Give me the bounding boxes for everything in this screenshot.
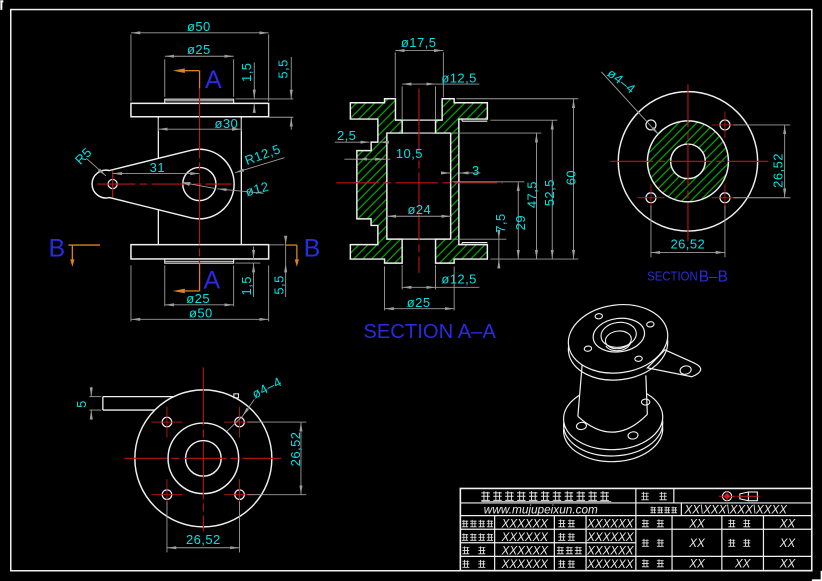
3d lug — [647, 350, 700, 377]
front view tube right wall — [240, 117, 242, 245]
svg-text:B: B — [304, 234, 321, 262]
svg-text:31: 31 — [150, 160, 165, 175]
dimension 29 — [452, 181, 524, 183]
dimension Ø30 — [157, 118, 159, 131]
svg-text:ø25: ø25 — [186, 291, 210, 306]
dimension 31 — [113, 173, 200, 175]
label document number cell — [650, 507, 677, 513]
front view lug small hole — [108, 179, 117, 188]
grip square on flange circle — [234, 394, 239, 398]
svg-text:26,52: 26,52 — [770, 153, 785, 188]
section A-A vertical centerline — [418, 89, 420, 273]
dimension 2,5 — [335, 141, 370, 143]
dimension 5,5 bottom — [269, 244, 284, 246]
svg-text:B: B — [49, 234, 66, 262]
svg-text:B–B: B–B — [699, 268, 728, 285]
svg-text:26,52: 26,52 — [186, 532, 221, 547]
svg-text:ø12,5: ø12,5 — [441, 272, 477, 287]
flange view outer circle — [135, 390, 272, 527]
svg-text:ø50: ø50 — [187, 19, 211, 34]
svg-text:1,5: 1,5 — [239, 63, 254, 82]
screen artifact bottom-right — [821, 571, 822, 581]
svg-text:XXXXXX: XXXXXX — [501, 517, 550, 530]
svg-text:26,52: 26,52 — [670, 237, 705, 252]
row quantity — [462, 560, 469, 568]
svg-text:7,5: 7,5 — [493, 213, 508, 232]
row part number — [462, 520, 493, 527]
front view teardrop lug outline — [92, 149, 234, 219]
section B-B bore circle — [671, 144, 706, 179]
dimension 26,52 vertical flange view — [247, 421, 306, 423]
dimension Ø24 — [387, 215, 451, 217]
section A-A flange underside steps right — [461, 119, 463, 121]
svg-text:3: 3 — [472, 163, 480, 178]
svg-text:XXXXXX: XXXXXX — [586, 558, 635, 571]
3d top boss — [591, 315, 646, 355]
section B-B bolt holes — [646, 120, 656, 130]
flange view lug tab — [103, 396, 174, 398]
svg-text:XX: XX — [688, 517, 706, 530]
svg-text:XX: XX — [779, 557, 797, 570]
svg-text:26,52: 26,52 — [288, 432, 303, 467]
svg-text:XXXXXX: XXXXXX — [501, 558, 550, 571]
svg-text:A: A — [205, 66, 222, 94]
svg-text:XX: XX — [734, 557, 752, 570]
section line B left with arrow — [68, 244, 100, 246]
svg-text:XXXXXX: XXXXXX — [501, 544, 550, 557]
flange view main centerlines — [202, 367, 204, 531]
section A-A left material hatched — [350, 99, 402, 263]
front view top flange — [131, 103, 269, 116]
company name row — [481, 491, 608, 500]
title block horizontal lines — [460, 502, 811, 504]
projection symbol cone — [740, 492, 758, 501]
svg-text:SECTION A–A: SECTION A–A — [363, 321, 496, 343]
dimension 1,5 bottom — [235, 262, 260, 264]
front view bottom flange — [131, 245, 269, 259]
svg-text:SECTION: SECTION — [647, 270, 698, 284]
dimension 52,5 — [490, 119, 557, 121]
3d bottom flange — [562, 384, 663, 451]
3d bottom flange visible holes — [576, 422, 587, 431]
dimension 26,52 horizontal B-B — [650, 205, 652, 257]
svg-text:XX: XX — [779, 537, 797, 550]
dimension 26,52 vertical B-B — [733, 124, 790, 126]
dimension 10,5 — [344, 158, 390, 160]
svg-text:60: 60 — [563, 170, 578, 185]
svg-text:ø25: ø25 — [187, 42, 211, 57]
svg-text:ø12,5: ø12,5 — [441, 71, 477, 86]
dimension 5 tab — [89, 396, 101, 398]
svg-text:52,5: 52,5 — [542, 179, 557, 206]
section B-B main centerlines — [610, 160, 768, 162]
front view small hole centerline — [112, 171, 114, 198]
title block vertical lines — [635, 488, 637, 570]
right block check row — [642, 559, 649, 567]
dimension Ø25 top — [164, 59, 166, 97]
svg-text:5,5: 5,5 — [276, 59, 291, 78]
dimension 26,52 horizontal flange view — [166, 501, 168, 552]
dimension 60 — [456, 98, 578, 100]
dimension Ø25 section — [384, 266, 386, 310]
svg-text:1,5: 1,5 — [239, 276, 254, 295]
dimension Ø17,5 — [394, 52, 396, 97]
section line A bottom with arrow — [199, 263, 201, 291]
section A-A right material hatched — [436, 99, 488, 263]
dimension Ø50 bottom — [130, 265, 132, 321]
section line B right with arrow — [285, 244, 297, 246]
flange view bolt hole centerlines — [151, 421, 182, 423]
flange view bore circle Ø12,5 — [186, 441, 222, 477]
section B-B bolt hole centerlines — [637, 197, 664, 199]
flange view boss circle Ø25 — [168, 423, 239, 494]
extension line bottom right — [490, 258, 578, 260]
3d bore rim — [600, 320, 638, 349]
front view top boss — [165, 99, 234, 103]
svg-text:XX: XX — [779, 517, 797, 530]
3d top flange — [564, 299, 672, 379]
front view vertical centerline — [199, 88, 201, 263]
front view tube left wall — [157, 117, 159, 159]
3d top flange holes — [595, 313, 603, 319]
screen corner artifact top-left — [0, 0, 2, 10]
label view angle cell — [641, 492, 648, 500]
dimension Ø25 bottom — [164, 265, 166, 306]
svg-text:www.mujupeixun.com: www.mujupeixun.com — [484, 502, 598, 516]
front view lug big hole Ø12 — [183, 167, 216, 200]
svg-text:XXXXXX: XXXXXX — [501, 531, 550, 544]
front view lug horizontal centerline — [97, 183, 231, 185]
svg-text:XXXXXX: XXXXXX — [586, 544, 635, 557]
title block outer border — [460, 488, 811, 570]
3d cylinder body — [578, 362, 648, 432]
projection symbol red target — [722, 492, 731, 501]
dimension Ø12,5 top — [401, 86, 403, 120]
section line A top with arrow — [184, 70, 199, 72]
svg-text:47,5: 47,5 — [524, 181, 539, 208]
dimension 3 wall — [441, 172, 451, 174]
section B-B hatched core — [647, 121, 728, 202]
section B-B outer circle Ø50 — [618, 92, 757, 231]
svg-text:2,5: 2,5 — [337, 128, 356, 143]
svg-text:XX: XX — [688, 537, 706, 550]
svg-text:ø17,5: ø17,5 — [401, 35, 437, 50]
dimension Ø50 top — [130, 34, 132, 101]
svg-text:XX: XX — [688, 557, 706, 570]
svg-text:5,5: 5,5 — [272, 275, 287, 294]
flange view bolt holes — [162, 417, 172, 427]
svg-text:XX\XXX\XXX\XXXX: XX\XXX\XXX\XXXX — [684, 504, 789, 517]
svg-text:10,5: 10,5 — [396, 146, 423, 161]
right block draw row merged — [642, 539, 649, 547]
svg-text:ø30: ø30 — [214, 116, 238, 131]
svg-text:ø50: ø50 — [189, 306, 213, 321]
section A-A bore step lines — [402, 119, 435, 121]
row part name — [462, 533, 493, 540]
section A-A horizontal centerline — [336, 182, 503, 184]
svg-text:ø24: ø24 — [407, 202, 431, 217]
svg-text:XXXXXX: XXXXXX — [586, 517, 635, 530]
dimension 7,5 — [452, 238, 506, 240]
dimension 47,5 — [452, 132, 541, 134]
dimension 5,5 top — [269, 116, 293, 118]
3d bore inner — [604, 329, 632, 350]
svg-text:XXXXXX: XXXXXX — [586, 531, 635, 544]
right block design row — [642, 519, 649, 527]
svg-text:5: 5 — [74, 400, 89, 408]
row material — [462, 546, 469, 554]
front view bottom boss — [165, 259, 234, 263]
svg-text:ø25: ø25 — [407, 295, 431, 310]
svg-text:29: 29 — [513, 215, 528, 230]
dimension 1,5 top — [235, 98, 260, 100]
dimension Ø12,5 bottom — [401, 265, 403, 290]
